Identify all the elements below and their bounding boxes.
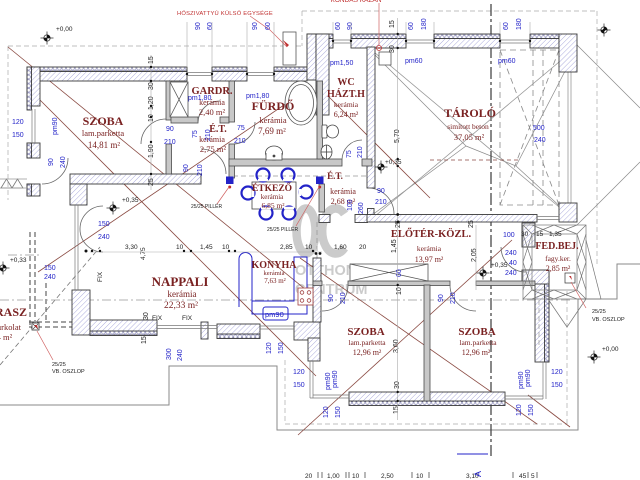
svg-text:lam.parketta: lam.parketta xyxy=(459,338,497,347)
svg-text:1,35: 1,35 xyxy=(549,231,562,238)
svg-text:90: 90 xyxy=(438,294,445,302)
svg-text:10: 10 xyxy=(416,473,424,480)
svg-text:5: 5 xyxy=(531,473,535,480)
svg-text:100: 100 xyxy=(347,199,354,211)
svg-text:10: 10 xyxy=(396,287,403,295)
svg-text:30: 30 xyxy=(148,82,155,90)
svg-text:2,75 m²: 2,75 m² xyxy=(200,144,227,154)
svg-text:1,60: 1,60 xyxy=(334,244,347,251)
svg-text:1,00: 1,00 xyxy=(327,473,340,480)
svg-text:12,96 m²: 12,96 m² xyxy=(353,348,382,357)
svg-text:30: 30 xyxy=(521,231,529,238)
svg-text:pm1,80: pm1,80 xyxy=(246,93,269,100)
svg-text:OTTHON: OTTHON xyxy=(295,263,356,279)
svg-text:kerámia: kerámia xyxy=(199,135,225,144)
svg-text:180: 180 xyxy=(421,18,428,30)
svg-text:210: 210 xyxy=(357,146,364,158)
svg-text:150: 150 xyxy=(12,132,24,139)
svg-text:pm90: pm90 xyxy=(332,370,339,388)
svg-text:ELŐTÉR-KÖZL.: ELŐTÉR-KÖZL. xyxy=(391,227,472,240)
svg-text:25/25: 25/25 xyxy=(592,309,606,315)
svg-text:A: A xyxy=(473,471,483,477)
svg-text:75: 75 xyxy=(192,130,199,138)
svg-text:13,97 m²: 13,97 m² xyxy=(415,255,444,264)
svg-text:210: 210 xyxy=(450,292,457,304)
svg-text:40: 40 xyxy=(509,260,517,267)
svg-text:150: 150 xyxy=(293,382,305,389)
svg-text:kerámia: kerámia xyxy=(261,193,284,201)
svg-text:FIX: FIX xyxy=(182,315,193,322)
svg-text:kerámia: kerámia xyxy=(330,187,356,196)
svg-text:pm60: pm60 xyxy=(498,58,516,65)
svg-text:SZOBA: SZOBA xyxy=(347,326,384,338)
svg-text:pm90: pm90 xyxy=(265,310,284,319)
svg-text:240: 240 xyxy=(505,270,517,277)
svg-text:90: 90 xyxy=(347,22,354,30)
svg-text:2,85: 2,85 xyxy=(280,244,293,251)
svg-text:150: 150 xyxy=(44,265,56,272)
svg-text:1,90: 1,90 xyxy=(148,144,155,158)
svg-text:37,05 m²: 37,05 m² xyxy=(454,132,485,142)
svg-text:kerámia: kerámia xyxy=(259,115,287,125)
svg-text:TERASZ: TERASZ xyxy=(0,305,27,319)
svg-text:150: 150 xyxy=(98,221,110,228)
svg-text:210: 210 xyxy=(197,164,204,176)
svg-text:2,50: 2,50 xyxy=(381,473,394,480)
svg-text:4,75: 4,75 xyxy=(140,247,147,260)
svg-text:10: 10 xyxy=(305,244,313,251)
svg-text:120: 120 xyxy=(516,404,523,416)
svg-text:7,63 m²: 7,63 m² xyxy=(264,277,286,285)
svg-text:+0,35: +0,35 xyxy=(491,262,508,269)
svg-text:lam.parketta: lam.parketta xyxy=(82,128,124,138)
svg-text:simított beton: simított beton xyxy=(447,122,489,131)
svg-text:240: 240 xyxy=(505,250,517,257)
svg-text:210: 210 xyxy=(375,199,387,206)
svg-text:1,45: 1,45 xyxy=(200,244,213,251)
svg-text:WC: WC xyxy=(337,77,354,88)
svg-text:45: 45 xyxy=(519,473,527,480)
svg-text:6,24 m²: 6,24 m² xyxy=(334,110,359,119)
svg-text:É.T.: É.T. xyxy=(327,171,343,181)
svg-text:HŐSZIVATTYÚ KÜLSŐ EGYSÉGE: HŐSZIVATTYÚ KÜLSŐ EGYSÉGE xyxy=(177,10,273,17)
svg-text:7,69 m²: 7,69 m² xyxy=(258,126,286,136)
svg-text:90: 90 xyxy=(166,126,174,133)
svg-text:60: 60 xyxy=(396,269,403,277)
svg-text:1,20: 1,20 xyxy=(148,96,155,110)
svg-text:pm1,50: pm1,50 xyxy=(330,60,353,67)
svg-text:25/25: 25/25 xyxy=(52,362,66,368)
svg-text:240: 240 xyxy=(44,274,56,281)
svg-text:60: 60 xyxy=(207,22,214,30)
svg-text:25/25 PILLÉR: 25/25 PILLÉR xyxy=(267,226,299,233)
svg-text:25: 25 xyxy=(148,178,155,186)
svg-text:30: 30 xyxy=(143,312,150,320)
svg-text:210: 210 xyxy=(234,138,246,145)
svg-text:FÜRDŐ: FÜRDŐ xyxy=(252,98,295,113)
svg-text:17,4 m²: 17,4 m² xyxy=(0,332,13,342)
svg-text:180: 180 xyxy=(516,18,523,30)
svg-text:10: 10 xyxy=(352,473,360,480)
svg-text:150: 150 xyxy=(278,342,285,354)
svg-text:12,96 m²: 12,96 m² xyxy=(462,348,491,357)
svg-text:100: 100 xyxy=(503,232,515,239)
svg-text:240: 240 xyxy=(98,234,110,241)
svg-text:30: 30 xyxy=(389,45,396,53)
svg-text:60: 60 xyxy=(335,22,342,30)
svg-text:fagy.ker.: fagy.ker. xyxy=(545,254,571,263)
svg-text:FIX: FIX xyxy=(152,315,163,322)
svg-text:1,45: 1,45 xyxy=(391,239,398,253)
svg-text:NAPPALI: NAPPALI xyxy=(152,274,209,289)
svg-text:14,81 m²: 14,81 m² xyxy=(88,140,121,150)
svg-text:lam.parketta: lam.parketta xyxy=(348,338,386,347)
svg-text:+0,35: +0,35 xyxy=(122,197,139,204)
svg-text:120: 120 xyxy=(266,342,273,354)
svg-text:120: 120 xyxy=(551,369,563,376)
svg-text:150: 150 xyxy=(335,406,342,418)
svg-text:90: 90 xyxy=(48,158,55,166)
svg-text:25/25 PILLÉR: 25/25 PILLÉR xyxy=(191,203,223,210)
svg-text:kerámia: kerámia xyxy=(417,244,442,253)
svg-text:120: 120 xyxy=(293,369,305,376)
svg-text:90: 90 xyxy=(183,164,190,172)
svg-text:2,85 m²: 2,85 m² xyxy=(546,264,571,273)
svg-text:22,33 m²: 22,33 m² xyxy=(164,301,198,311)
svg-text:500: 500 xyxy=(533,125,545,132)
svg-text:210: 210 xyxy=(164,139,176,146)
svg-text:150: 150 xyxy=(528,404,535,416)
svg-text:240: 240 xyxy=(177,349,184,361)
svg-text:VB. OSZLOP: VB. OSZLOP xyxy=(52,369,85,375)
svg-text:+0,00: +0,00 xyxy=(56,26,73,33)
svg-text:6,85 m²: 6,85 m² xyxy=(261,201,285,210)
svg-text:pm90: pm90 xyxy=(525,369,532,387)
svg-text:+0,33: +0,33 xyxy=(10,257,27,264)
svg-text:60: 60 xyxy=(408,22,415,30)
svg-text:75: 75 xyxy=(346,150,353,158)
svg-text:300: 300 xyxy=(166,348,173,360)
svg-text:20: 20 xyxy=(305,473,313,480)
svg-text:SZOBA: SZOBA xyxy=(83,114,124,128)
svg-text:90: 90 xyxy=(328,294,335,302)
svg-text:15: 15 xyxy=(389,20,396,28)
svg-text:60: 60 xyxy=(265,22,272,30)
svg-text:150: 150 xyxy=(551,382,563,389)
svg-text:240: 240 xyxy=(60,156,67,168)
svg-text:120: 120 xyxy=(12,119,24,126)
svg-text:TÁROLÓ: TÁROLÓ xyxy=(444,106,496,120)
svg-text:kerámia: kerámia xyxy=(168,289,197,299)
svg-text:90: 90 xyxy=(195,22,202,30)
svg-text:FED.BEJ.: FED.BEJ. xyxy=(535,241,579,252)
svg-text:pm1,80: pm1,80 xyxy=(188,95,211,102)
svg-text:pm90: pm90 xyxy=(325,372,332,390)
svg-text:3,30: 3,30 xyxy=(125,244,138,251)
svg-text:+0,35: +0,35 xyxy=(385,159,402,166)
svg-text:210: 210 xyxy=(205,129,212,141)
svg-text:15: 15 xyxy=(393,406,400,414)
svg-text:VB. OSZLOP: VB. OSZLOP xyxy=(592,317,625,323)
svg-text:20: 20 xyxy=(359,244,367,251)
svg-text:pm90: pm90 xyxy=(52,117,59,135)
svg-text:SZOBA: SZOBA xyxy=(458,326,495,338)
svg-text:fagy.burkolat: fagy.burkolat xyxy=(0,322,22,332)
svg-text:120: 120 xyxy=(323,406,330,418)
svg-text:90: 90 xyxy=(377,188,385,195)
svg-text:75: 75 xyxy=(237,125,245,132)
svg-text:90: 90 xyxy=(252,22,259,30)
svg-text:kerámia: kerámia xyxy=(334,100,359,109)
svg-text:2,05: 2,05 xyxy=(471,248,478,262)
svg-text:240: 240 xyxy=(534,137,546,144)
svg-text:+0,00: +0,00 xyxy=(602,346,619,353)
svg-text:KONDÁS KAZÁN: KONDÁS KAZÁN xyxy=(331,0,382,4)
svg-text:210: 210 xyxy=(340,292,347,304)
svg-text:2,40 m²: 2,40 m² xyxy=(199,107,226,117)
svg-text:10: 10 xyxy=(176,244,184,251)
svg-text:15: 15 xyxy=(148,56,155,64)
svg-text:HÁZT.H: HÁZT.H xyxy=(327,88,365,100)
svg-text:pm90: pm90 xyxy=(518,371,525,389)
svg-text:60: 60 xyxy=(503,22,510,30)
svg-text:3,60: 3,60 xyxy=(393,339,400,353)
svg-text:kerámia: kerámia xyxy=(264,270,285,277)
svg-text:25: 25 xyxy=(468,220,475,228)
svg-text:260: 260 xyxy=(358,202,365,214)
svg-text:FIX: FIX xyxy=(97,271,104,282)
svg-text:15: 15 xyxy=(536,231,544,238)
svg-text:15: 15 xyxy=(141,336,148,344)
svg-text:pm60: pm60 xyxy=(405,58,423,65)
